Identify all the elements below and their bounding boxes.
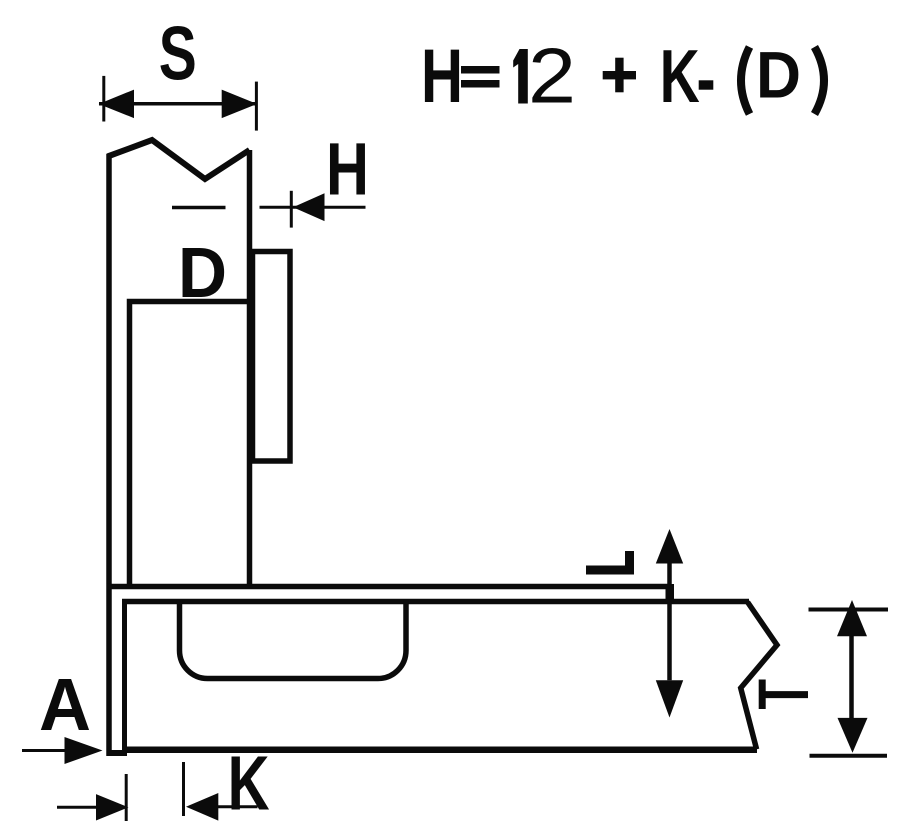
dimension S left arrowhead [99,90,134,119]
formula plus sign [603,58,636,93]
dimension K arrow shaft [218,805,258,808]
svg-text:H: H [326,128,369,211]
corner bracket symbol [586,551,630,570]
hinge cup recess in door [130,302,252,589]
cabinet panel bottom edge [122,747,757,754]
overlay adjustment up arrowhead [656,529,683,564]
dimension H arrowhead [293,193,325,221]
dimension H extension tick [290,191,293,228]
dimension A lower arrow shaft [57,806,97,809]
dimension A lower arrowhead [96,794,129,820]
door bottom edge line [107,584,672,590]
formula digit 1 [513,49,528,104]
svg-text:K: K [228,741,270,827]
dimension H line [260,206,366,209]
door panel jagged top break line [108,140,250,179]
overlay adjustment arrow shaft [667,564,672,681]
cup depth reference centerline [172,206,226,210]
dimension S line [99,102,257,106]
dimension T down arrowhead [838,718,868,753]
svg-text:S: S [159,12,197,97]
dimension T arrow shaft [849,636,854,718]
cabinet panel jagged right break edge [741,602,777,749]
door panel right edge [247,150,253,589]
cabinet panel left end face [122,599,127,753]
formula close parenthesis [815,47,825,114]
door panel left edge [106,154,112,756]
dimension A upper arrowhead [65,737,103,764]
dimension A extension tick [125,774,128,821]
svg-text:D: D [756,38,801,112]
overlay adjustment down arrowhead [656,680,683,717]
dimension T top line [809,608,889,612]
dimension T bottom line [810,754,888,758]
dimension S right arrowhead [222,90,257,119]
svg-text:2: 2 [528,32,576,120]
dimension T up arrowhead [837,600,867,636]
formula equals sign [461,66,500,88]
overlay adjustment junction bar [666,584,675,602]
svg-text:A: A [39,663,91,746]
dimension S left extension tick [102,76,105,122]
svg-text:K: K [660,34,700,118]
door bottom end cap [107,750,128,756]
formula minus sign [699,80,714,89]
dimension K arrowhead [186,793,218,821]
rotated T symbol [759,680,808,710]
dimension A upper arrow shaft [22,749,66,752]
dimension S right extension tick [255,82,258,131]
cabinet panel top face line [122,599,749,605]
svg-text:H: H [421,34,463,119]
mounting plate recess rounded pocket [180,600,407,679]
formula open parenthesis [741,47,750,114]
dimension K extension tick [182,762,185,816]
hinge arm plate rectangle [253,252,291,462]
svg-text:D: D [178,234,227,313]
